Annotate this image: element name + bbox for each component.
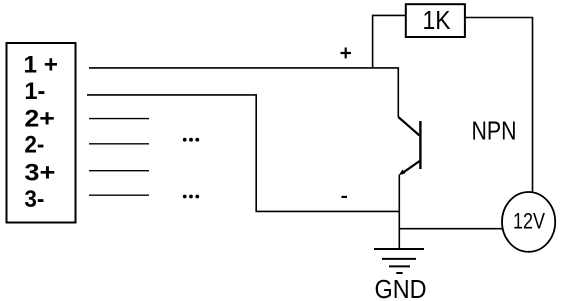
wire stub 3- (89, 194, 149, 196)
wire resistor to 12V source top (465, 18, 533, 193)
wire stub 2+ (89, 118, 149, 120)
voltage source V1 circle (502, 192, 555, 252)
wire pin1- to emitter node (87, 95, 399, 211)
resistor R1 box (406, 4, 465, 37)
svg-text:12V: 12V (513, 208, 545, 233)
transistor Q1 collector lead (398, 117, 419, 136)
svg-text:2-: 2- (24, 132, 44, 159)
wire emitter node to 12V source (399, 228, 502, 230)
terminal block box (7, 43, 76, 223)
minus polarity label (342, 196, 348, 198)
wire pin1+ to transistor collector (89, 68, 398, 117)
wire emitter to ground (398, 175, 400, 250)
wire branch up to resistor R1 (373, 15, 406, 68)
transistor Q1 emitter lead with arrow (402, 161, 421, 174)
svg-text:3-: 3- (24, 186, 44, 213)
transistor Q1 base bar (419, 121, 421, 169)
svg-text:1 +: 1 + (24, 52, 59, 79)
svg-text:1K: 1K (423, 5, 452, 35)
svg-text:NPN: NPN (472, 116, 517, 146)
ellipsis dots upper (183, 138, 199, 142)
ellipsis dots lower (183, 195, 199, 199)
svg-text:GND: GND (375, 274, 427, 301)
svg-text:3+: 3+ (24, 159, 55, 186)
svg-text:1-: 1- (24, 78, 45, 105)
svg-text:2+: 2+ (24, 106, 55, 133)
wire stub 2- (89, 143, 149, 145)
plus polarity label (341, 48, 352, 59)
ground symbol (374, 249, 424, 273)
wire stub 3+ (89, 170, 149, 172)
